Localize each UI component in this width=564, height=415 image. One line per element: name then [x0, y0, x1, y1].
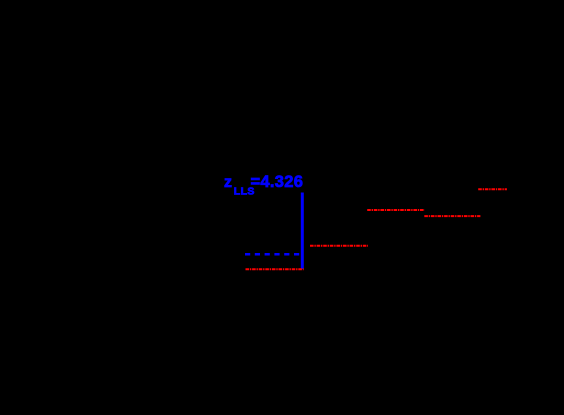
red dash-dot model segment C	[367, 209, 424, 211]
svg-text:z: z	[224, 174, 233, 191]
blue dashed continuum level line	[245, 253, 300, 256]
svg-text:=4.326: =4.326	[251, 173, 304, 191]
red dash-dot model segment A	[246, 268, 304, 270]
red dash-dot model segment D	[424, 215, 480, 217]
red dash-dot model segment E	[478, 188, 507, 190]
red dash-dot model segment B	[310, 245, 368, 247]
blue LLS redshift marker vertical line	[301, 193, 304, 270]
label z_LLS=4.326	[224, 173, 303, 198]
